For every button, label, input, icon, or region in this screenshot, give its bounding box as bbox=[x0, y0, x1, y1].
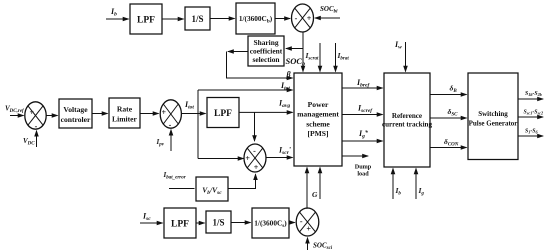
wire Ib into LPF1 bbox=[106, 18, 129, 20]
svg-text:Ib: Ib bbox=[110, 7, 117, 18]
wire sharing output left bbox=[228, 51, 248, 53]
svg-text:LPF: LPF bbox=[214, 109, 232, 119]
svg-text:Iw: Iw bbox=[394, 40, 402, 51]
wire Ipv up into circle2 bbox=[170, 130, 172, 151]
svg-text:-: - bbox=[253, 147, 256, 156]
svg-text:Dump: Dump bbox=[355, 164, 372, 171]
svg-text:Ig: Ig bbox=[418, 186, 425, 197]
block voltage controler bbox=[59, 99, 92, 128]
svg-text:Ig*: Ig* bbox=[358, 129, 369, 140]
svg-text:+: + bbox=[30, 108, 35, 117]
summing junction SC SOC bbox=[296, 208, 319, 236]
block 1/(3600Cs) bbox=[252, 208, 289, 238]
block sharing coefficient selection bbox=[248, 36, 284, 66]
svg-text:Isc: Isc bbox=[142, 212, 151, 223]
svg-text:load: load bbox=[357, 171, 369, 178]
summing junction SC reference bbox=[244, 144, 266, 172]
block 1/S (battery) bbox=[185, 7, 210, 30]
wire Vb/Vsc to circle3 bottom bbox=[228, 174, 256, 188]
wire LPF1 to 1/S bbox=[162, 18, 184, 20]
summing junction PV current bbox=[160, 100, 181, 128]
wire Iw down into reference tracking bbox=[405, 42, 407, 72]
svg-text:Power: Power bbox=[308, 100, 329, 109]
wire voltage controler to rate limiter bbox=[92, 113, 108, 115]
wire Ibat_error into Vb/Vsc bbox=[169, 188, 195, 190]
block LPF1 bbox=[130, 4, 162, 34]
wire S1-S6 output bbox=[518, 135, 543, 137]
wire 1/S to 1/(3600Cb) bbox=[210, 18, 235, 20]
svg-text:Iavg: Iavg bbox=[278, 99, 290, 110]
svg-text:+: + bbox=[306, 225, 311, 234]
block LPF3 bbox=[207, 98, 239, 128]
wire beta path into PMS bbox=[227, 52, 293, 79]
wire circle3 output to PMS bbox=[266, 157, 292, 159]
svg-text:-: - bbox=[169, 121, 172, 130]
wire branch to sharing selection bbox=[286, 48, 303, 50]
wire Iscref PMS to reference tracking bbox=[342, 114, 383, 116]
wire SOCbi into circle bbox=[315, 17, 340, 19]
wire Itot branch into circle3 bbox=[198, 158, 244, 160]
svg-text:S1b-S2b: S1b-S2b bbox=[525, 91, 542, 97]
svg-text:Pulse Generator: Pulse Generator bbox=[469, 119, 518, 127]
svg-text:Reference: Reference bbox=[392, 112, 422, 120]
svg-text:1/S: 1/S bbox=[212, 218, 224, 228]
svg-text:-: - bbox=[295, 14, 298, 23]
wire G up into PMS bottom bbox=[319, 168, 321, 200]
wire Ibref PMS to reference tracking bbox=[342, 87, 383, 89]
block PMS bbox=[294, 73, 342, 166]
block LPF2 bbox=[164, 208, 196, 238]
svg-text:Itot: Itot bbox=[280, 81, 290, 92]
svg-text:δSC: δSC bbox=[448, 107, 459, 118]
wire Ig* PMS to reference tracking bbox=[342, 140, 383, 142]
svg-text:Limiter: Limiter bbox=[112, 115, 138, 124]
svg-text:Ibat_error: Ibat_error bbox=[163, 171, 186, 181]
svg-text:management: management bbox=[297, 110, 339, 119]
wire Iscrat into PMS top bbox=[319, 43, 321, 72]
svg-text:Ssc1-Ssc2: Ssc1-Ssc2 bbox=[524, 110, 544, 116]
svg-text:Iscr’: Iscr’ bbox=[278, 146, 291, 157]
svg-text:+: + bbox=[307, 14, 312, 23]
svg-text:S1-S6: S1-S6 bbox=[525, 129, 538, 135]
wire deltaCON to switching generator bbox=[430, 147, 467, 149]
svg-text:[PMS]: [PMS] bbox=[307, 129, 328, 138]
wire Ssc1-Ssc2 output bbox=[518, 116, 543, 118]
svg-text:Iscref: Iscref bbox=[357, 104, 373, 115]
wire junction down to circle3 bbox=[254, 112, 256, 141]
svg-text:δB: δB bbox=[450, 84, 458, 95]
wire deltaSC to switching generator bbox=[430, 117, 467, 119]
wire SOCsc up into PMS bottom bbox=[306, 168, 308, 209]
summing junction DC voltage bbox=[25, 102, 46, 129]
block 1/S2 bbox=[206, 211, 231, 233]
wire LPF2 to 1/S2 bbox=[196, 222, 205, 224]
svg-text:+: + bbox=[254, 163, 259, 172]
block reference current tracking bbox=[384, 73, 430, 167]
wire Itot into PMS bbox=[198, 89, 293, 91]
block rate limiter bbox=[109, 98, 140, 128]
block 1/(3600Cb) bbox=[236, 3, 275, 34]
svg-text:Ibrat: Ibrat bbox=[337, 51, 350, 62]
wire circle2 to LPF3 with Itot node bbox=[181, 113, 205, 115]
svg-text:G: G bbox=[312, 190, 318, 199]
wire rate limiter to circle2 bbox=[140, 113, 159, 115]
svg-text:SOCb: SOCb bbox=[286, 56, 306, 68]
svg-text:1/(3600Cs): 1/(3600Cs) bbox=[254, 219, 287, 230]
svg-text:LPF: LPF bbox=[137, 16, 155, 26]
wire 1/S2 to 1/(3600Cs) bbox=[231, 222, 251, 224]
svg-text:β: β bbox=[286, 70, 292, 79]
svg-text:current tracking: current tracking bbox=[382, 121, 433, 129]
wire 1/(3600Cb) to summing circle B bbox=[275, 18, 290, 20]
wire Ig up into reference tracking bbox=[415, 169, 417, 200]
svg-text:+: + bbox=[162, 108, 167, 117]
svg-text:Voltage: Voltage bbox=[63, 105, 88, 114]
svg-text:Iscrat: Iscrat bbox=[305, 51, 320, 62]
wire LPF3 to PMS Iavg bbox=[239, 111, 293, 113]
svg-text:-: - bbox=[300, 217, 303, 226]
wire SOCsci up into circle4 bbox=[307, 238, 309, 250]
wire Ibrat into PMS top bbox=[335, 43, 337, 72]
wire deltaB to switching generator bbox=[430, 94, 467, 96]
svg-text:1/(3600Cb): 1/(3600Cb) bbox=[239, 14, 273, 25]
svg-text:SOCsci: SOCsci bbox=[313, 242, 333, 252]
block switching pulse generator bbox=[468, 73, 518, 160]
svg-text:Ipv: Ipv bbox=[156, 138, 165, 148]
svg-text:Rate: Rate bbox=[117, 105, 133, 114]
svg-text:δCON: δCON bbox=[444, 137, 459, 148]
svg-text:VDC: VDC bbox=[23, 137, 35, 147]
svg-text:LPF: LPF bbox=[171, 220, 189, 230]
svg-text:selection: selection bbox=[252, 55, 279, 64]
wire dump load output bbox=[342, 155, 368, 157]
summing junction battery SOC bbox=[292, 4, 314, 32]
wire circle1 to voltage controler bbox=[46, 115, 57, 117]
svg-text:Switching: Switching bbox=[478, 110, 508, 118]
wire SOCb down into PMS bbox=[302, 32, 304, 72]
wire Sb1-Sb2 output bbox=[518, 98, 543, 100]
wire VDC up into circle1 bbox=[36, 131, 38, 147]
wire Isc into LPF2 bbox=[140, 222, 163, 224]
svg-text:1/S: 1/S bbox=[191, 14, 203, 24]
wire Itot branch vertical bbox=[197, 90, 199, 114]
svg-text:Vb/Vsc: Vb/Vsc bbox=[202, 186, 222, 197]
svg-text:Ib: Ib bbox=[395, 186, 402, 197]
svg-text:-: - bbox=[35, 122, 38, 131]
svg-text:SOCbi: SOCbi bbox=[320, 5, 338, 15]
wire VDCref into circle1 bbox=[10, 115, 24, 117]
svg-text:Itot: Itot bbox=[184, 100, 194, 111]
svg-text:+: + bbox=[245, 154, 250, 163]
svg-text:VDC,ref: VDC,ref bbox=[5, 105, 25, 115]
wire 1/(3600Cs) to circle4 bbox=[289, 222, 295, 224]
block Vb/Vsc bbox=[196, 177, 228, 201]
svg-text:controler: controler bbox=[61, 115, 91, 124]
svg-text:Ibref: Ibref bbox=[356, 78, 370, 89]
svg-text:scheme: scheme bbox=[306, 119, 330, 128]
wire Ib up into reference tracking bbox=[392, 169, 394, 200]
